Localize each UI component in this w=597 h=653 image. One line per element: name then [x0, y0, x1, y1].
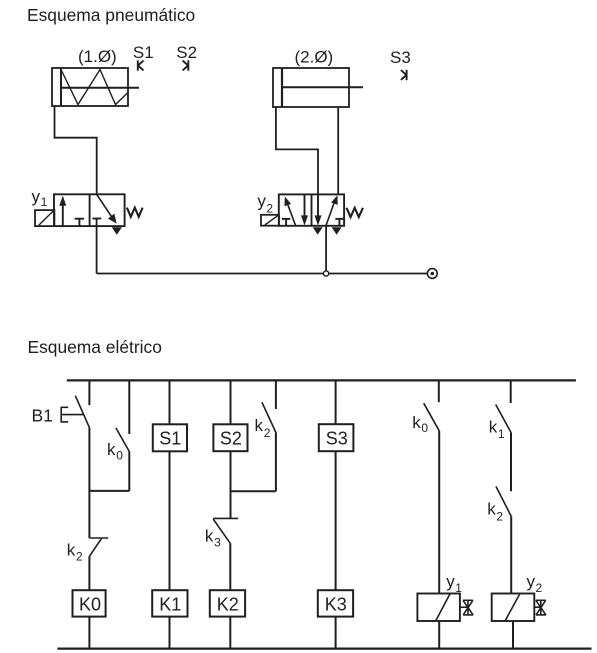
wire K0 to bottom bus	[88, 617, 90, 649]
valve y2 supply wire down	[325, 226, 327, 274]
valve y1 blocked port T (left box)	[75, 219, 84, 226]
valve symbol at y1 coil	[460, 600, 473, 615]
valve symbol at y2 coil	[534, 600, 546, 615]
svg-text:1: 1	[455, 581, 462, 595]
valve y2 flow arrow (right box, down)	[315, 194, 322, 225]
svg-text:y: y	[446, 572, 455, 591]
wire k2 to solenoid y2	[510, 516, 512, 593]
svg-text:k: k	[67, 541, 76, 560]
wire cylinder1 to valve y1	[55, 106, 97, 194]
k2 parallel rejoin wire	[231, 490, 276, 492]
switch box S3	[319, 424, 354, 451]
label k2 (branch F)	[487, 500, 503, 524]
svg-text:S2: S2	[220, 429, 242, 449]
switch box S2	[213, 424, 247, 451]
top bus line	[67, 379, 576, 381]
k0 holding branch stub	[128, 380, 130, 434]
svg-text:S3: S3	[326, 429, 348, 449]
svg-text:k: k	[487, 500, 496, 519]
NO contact k2 blade	[262, 402, 276, 432]
svg-text:S2: S2	[176, 43, 197, 62]
limit switch marker S2	[183, 60, 189, 70]
valve y2 flow arrow (left box, diagonal up)	[285, 197, 296, 226]
valve y2 body (3/2 valve)	[279, 194, 344, 225]
valve y2 return spring W	[347, 208, 363, 217]
coil K2 box	[210, 590, 245, 616]
valve y1 body (3/2 valve)	[54, 194, 125, 226]
label k2 (parallel)	[255, 416, 271, 440]
valve y1 flow arrow (left box, up)	[59, 196, 66, 227]
branch C wire from bus	[230, 380, 232, 424]
switch B1 contact blade	[75, 396, 89, 428]
svg-text:0: 0	[116, 448, 123, 462]
svg-text:K1: K1	[159, 595, 181, 615]
wire below k2	[275, 433, 277, 492]
valve y2 flow arrow (right box, diagonal up)	[326, 195, 338, 226]
limit switch marker S1	[138, 60, 144, 70]
svg-text:K3: K3	[325, 595, 347, 615]
svg-text:(2.Ø): (2.Ø)	[295, 47, 334, 66]
label k2 (branch A)	[67, 541, 83, 564]
svg-text:k: k	[205, 527, 214, 546]
cylinder 1.0 (single-acting, spring return)	[52, 68, 139, 106]
valve y1 exhaust triangle	[112, 227, 122, 235]
NO contact k2 blade (branch F)	[496, 487, 511, 517]
valve y2 blocked port T (right box)	[335, 219, 343, 226]
svg-text:0: 0	[421, 421, 428, 435]
svg-text:Esquema elétrico: Esquema elétrico	[28, 337, 162, 357]
air source symbol (circle with dot)	[427, 269, 437, 279]
NC contact k3	[213, 518, 238, 543]
wire y2 coil to bottom bus	[512, 621, 514, 649]
svg-text:k: k	[255, 416, 264, 435]
valve y1 solenoid box	[35, 210, 54, 226]
junction node (open circle)	[324, 271, 329, 276]
switch box S1	[153, 424, 187, 451]
svg-text:y: y	[32, 187, 41, 206]
label k3	[205, 527, 221, 550]
wire below k0	[128, 452, 130, 491]
svg-text:y: y	[257, 192, 266, 211]
svg-text:2: 2	[496, 510, 503, 524]
holding branch rejoin wire	[89, 490, 129, 492]
valve y2 exhaust triangle right	[332, 227, 342, 234]
svg-text:2: 2	[266, 202, 273, 216]
wire S3 to K3	[335, 451, 337, 590]
wire below S2	[230, 451, 232, 518]
svg-text:3: 3	[214, 536, 221, 550]
label k0 (branch E)	[412, 413, 428, 435]
svg-text:S1: S1	[133, 43, 154, 62]
valve y2 blocked port T (left box)	[282, 219, 290, 226]
bottom bus line	[57, 647, 591, 649]
wire between k1 and k2	[510, 433, 512, 492]
coil K0 box	[73, 590, 106, 616]
wire cylinder2 right port to valve y2	[337, 107, 339, 194]
svg-text:k: k	[489, 417, 498, 436]
svg-text:2: 2	[264, 426, 271, 440]
label y1 (valve)	[32, 187, 48, 209]
wire to coil K0	[88, 556, 90, 590]
label y2 (valve)	[257, 192, 273, 216]
wire y1 coil to bottom bus	[438, 621, 440, 649]
wire S1 to K1	[169, 451, 171, 590]
label y1 (coil)	[446, 572, 462, 595]
NO contact k1 blade	[496, 405, 511, 433]
air supply line	[97, 273, 428, 275]
branch F stub from bus	[510, 380, 512, 403]
NC contact k2 (branch A)	[90, 538, 109, 556]
branch A stub from bus	[88, 380, 90, 405]
label k0 (holding)	[107, 440, 123, 463]
svg-text:K0: K0	[79, 595, 101, 615]
svg-text:S1: S1	[159, 429, 181, 449]
valve y1 blocked port T (right box)	[93, 218, 102, 220]
NO contact k0 (holding) blade	[116, 428, 129, 452]
k2 parallel branch stub	[275, 380, 277, 409]
wire k0 to solenoid y1	[438, 431, 440, 594]
valve y2 flow arrow (left box, down)	[301, 194, 308, 225]
svg-text:Esquema pneumático: Esquema pneumático	[27, 5, 195, 25]
svg-text:B1: B1	[32, 405, 53, 425]
valve y2 solenoid box	[261, 215, 279, 226]
svg-text:1: 1	[41, 195, 48, 209]
wire to coil K2	[229, 543, 231, 590]
valve y1 supply wire down	[96, 219, 98, 274]
branch D wire from bus	[335, 380, 337, 424]
solenoid coil y1 box	[417, 594, 460, 622]
svg-text:1: 1	[498, 427, 505, 441]
switch B1 manual actuator bracket	[61, 407, 83, 423]
svg-text:y: y	[527, 572, 536, 591]
limit switch marker S3	[401, 70, 407, 80]
label k1	[489, 417, 505, 441]
branch E stub from bus	[438, 380, 440, 402]
svg-text:S3: S3	[390, 48, 411, 67]
svg-text:2: 2	[76, 550, 83, 564]
branch B wire from bus	[169, 380, 171, 424]
wire below B1	[88, 427, 90, 538]
NO contact k0 blade (branch E)	[424, 403, 440, 431]
coil K1 box	[152, 590, 187, 616]
label y2 (coil)	[527, 572, 543, 595]
valve y1 exhaust path arrow (right box, diagonal)	[97, 194, 117, 223]
wire K2 to bottom bus	[229, 617, 231, 649]
svg-text:K2: K2	[217, 595, 239, 615]
cylinder 2.0 (double-acting)	[273, 68, 363, 107]
wire cylinder2 left port to valve y2	[276, 107, 318, 194]
coil K3 box	[318, 590, 353, 616]
wire K3 to bottom bus	[335, 617, 337, 649]
solenoid coil y2 box	[492, 594, 535, 622]
svg-text:(1.Ø): (1.Ø)	[78, 47, 117, 66]
valve y1 return spring W	[127, 208, 143, 217]
svg-text:k: k	[412, 413, 421, 432]
svg-text:k: k	[107, 440, 116, 459]
svg-text:2: 2	[536, 581, 543, 595]
valve y2 exhaust triangle left	[313, 227, 323, 234]
wire K1 to bottom bus	[169, 617, 171, 649]
